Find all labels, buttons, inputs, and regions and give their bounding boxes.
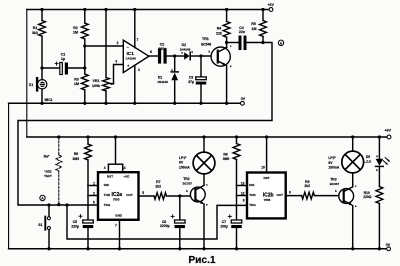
capacitor C6 2200u <box>179 196 181 220</box>
svg-text:b: b <box>208 50 210 54</box>
svg-text:TRG: TRG <box>104 203 111 207</box>
svg-text:2: 2 <box>117 41 119 45</box>
wire IC2a GND to 0V <box>119 220 121 249</box>
svg-text:R4: R4 <box>217 27 222 31</box>
pin 7 wire to +6V <box>134 10 136 48</box>
timer IC2a 7556 <box>98 172 139 220</box>
node A marker bottom <box>40 195 45 200</box>
svg-text:L.E.D: L.E.D <box>364 160 373 164</box>
wire DIS stub IC2b <box>237 185 248 187</box>
svg-text:b: b <box>186 189 188 193</box>
svg-text:b: b <box>335 189 337 193</box>
svg-text:1M: 1M <box>73 31 78 35</box>
svg-text:10: 10 <box>261 166 265 170</box>
op-amp IC1 CA3140 <box>123 40 149 72</box>
svg-text:2: 2 <box>93 192 95 196</box>
svg-text:k: k <box>192 50 194 54</box>
wire TR1 collector <box>226 43 228 48</box>
svg-text:+6V: +6V <box>267 3 274 7</box>
terminal 0V top <box>241 101 245 105</box>
node R7/C6 <box>178 194 181 197</box>
transistor TR3 BC337 <box>339 189 354 204</box>
wire +6V top rail <box>27 9 269 11</box>
svg-text:TR1: TR1 <box>202 37 209 41</box>
wire 0V bottom rail <box>9 248 387 250</box>
wire THR stub IC2a <box>88 195 98 197</box>
wire C1 right to R2/R3 node <box>68 67 85 69</box>
wire left 0V drop <box>8 103 10 249</box>
wire C2 to D1 node <box>167 55 175 57</box>
svg-text:c: c <box>230 44 232 48</box>
svg-text:1N4148: 1N4148 <box>157 80 168 84</box>
svg-text:13: 13 <box>241 182 245 186</box>
svg-text:C2: C2 <box>160 42 165 46</box>
resistor R6 3M9 <box>86 135 89 138</box>
wire +6V bottom rail <box>27 136 387 138</box>
wire mic top <box>41 68 43 80</box>
svg-text:100k: 100k <box>92 84 100 88</box>
wire TR3 collector <box>352 174 354 187</box>
svg-text:S1: S1 <box>38 223 42 227</box>
svg-text:100mA: 100mA <box>179 165 190 169</box>
node D1 top <box>173 54 176 57</box>
svg-text:8: 8 <box>243 199 245 203</box>
svg-text:e: e <box>206 203 208 207</box>
lamp LP1 6V 100mA <box>202 135 205 138</box>
wire to TR1 base <box>201 55 218 57</box>
svg-text:BC337: BC337 <box>183 182 193 186</box>
capacitor C1 1u electrolytic <box>42 67 60 69</box>
svg-text:VR1: VR1 <box>93 79 100 83</box>
wire IC2b output <box>286 195 302 197</box>
capacitor C3 47u <box>200 56 202 77</box>
svg-text:22n: 22n <box>239 30 245 34</box>
svg-text:6V: 6V <box>328 161 333 165</box>
resistor R8 3M9 <box>235 135 238 138</box>
svg-text:6: 6 <box>150 50 152 54</box>
svg-text:C6: C6 <box>162 220 166 224</box>
capacitor C4 22n <box>239 37 242 49</box>
svg-text:D2: D2 <box>182 43 186 47</box>
svg-text:c: c <box>355 184 357 188</box>
svg-text:a: a <box>376 154 378 158</box>
svg-text:4: 4 <box>104 166 106 170</box>
node R2/R3 tap to IC1 pin2 <box>83 44 86 47</box>
wire DIS stub IC2a <box>88 185 98 187</box>
wire R6 to DIS/THR and C5 <box>87 186 89 221</box>
LED D5 <box>378 135 381 138</box>
terminal +6V bottom <box>387 135 391 139</box>
svg-text:7555: 7555 <box>264 198 271 202</box>
wire TR3 emitter to 0V <box>352 206 354 249</box>
resistor R5 1M <box>262 10 264 21</box>
svg-text:BC548: BC548 <box>201 42 211 46</box>
wire R7 to TR2 base <box>167 195 196 197</box>
svg-text:c: c <box>206 183 208 187</box>
svg-text:C1: C1 <box>61 53 66 57</box>
svg-text:DIS: DIS <box>104 183 109 187</box>
svg-text:C7: C7 <box>222 220 226 224</box>
svg-text:100µ: 100µ <box>220 224 228 228</box>
svg-text:GND: GND <box>115 213 123 217</box>
microphone X1 MIC1 <box>36 78 38 90</box>
LED emission arrows <box>383 161 387 165</box>
capacitor C5 220u <box>83 220 94 223</box>
wire TR2 emitter to 0V <box>203 204 205 249</box>
svg-text:R2: R2 <box>73 26 78 30</box>
terminal 0V bottom <box>387 247 391 251</box>
wire collector node to C4 <box>227 42 240 44</box>
svg-text:OUT: OUT <box>126 193 133 197</box>
svg-text:D5: D5 <box>366 155 370 159</box>
potentiometer VR1 100k <box>105 10 107 78</box>
svg-text:1µ: 1µ <box>61 57 65 61</box>
svg-text:9: 9 <box>289 190 291 194</box>
capacitor C7 100u <box>231 220 242 223</box>
resistor R1 <box>41 10 43 21</box>
wire trigger bus <box>67 205 247 239</box>
diode D2 1N4148 <box>184 52 189 60</box>
svg-text:e: e <box>230 64 232 68</box>
svg-text:R3: R3 <box>74 77 79 81</box>
wire net A down-left to bottom circuit <box>18 43 272 206</box>
svg-text:3k2: 3k2 <box>32 31 38 35</box>
wire D2 to C3 node <box>190 55 201 57</box>
svg-text:2200µ: 2200µ <box>160 224 170 228</box>
resistor Ra optional dashed <box>57 135 60 138</box>
terminal +6V top <box>269 8 273 12</box>
svg-text:MIC1: MIC1 <box>44 98 52 102</box>
node C1 to divider <box>83 66 86 69</box>
svg-text:R6: R6 <box>74 152 78 156</box>
svg-text:7: 7 <box>136 38 138 42</box>
wire C4 to R5 node <box>246 42 264 44</box>
svg-text:D1: D1 <box>158 75 162 79</box>
svg-text:2k2: 2k2 <box>304 184 310 188</box>
svg-text:TEXT: TEXT <box>44 174 52 178</box>
svg-text:k: k <box>376 168 378 172</box>
wire IC2a reset/+ve to rail <box>107 164 109 172</box>
svg-text:e: e <box>355 204 357 208</box>
svg-text:7: 7 <box>115 223 117 227</box>
wire THR stub IC2b <box>237 195 248 197</box>
svg-text:LP1*: LP1* <box>179 156 187 160</box>
svg-text:2k2: 2k2 <box>155 184 161 188</box>
svg-text:CA3140: CA3140 <box>126 56 137 60</box>
lamp LP2 6V 100mA <box>351 135 354 138</box>
pin 4 wire to 0V <box>134 65 136 103</box>
svg-text:+VE: +VE <box>123 175 129 179</box>
svg-text:RST: RST <box>264 176 270 180</box>
wire to D2 <box>175 55 184 57</box>
svg-text:100mA: 100mA <box>328 166 339 170</box>
switch S1 push-to-make <box>47 203 50 206</box>
svg-text:*SEE: *SEE <box>44 169 51 173</box>
svg-text:THR: THR <box>104 193 111 197</box>
resistor R3 <box>81 74 88 90</box>
svg-text:6: 6 <box>93 200 95 204</box>
node TR1 collector / R4 <box>225 41 228 44</box>
svg-text:0V: 0V <box>241 97 246 101</box>
svg-text:OUT: OUT <box>276 193 283 197</box>
node mic/C1 junction <box>40 66 43 69</box>
svg-text:TRG: TRG <box>249 203 256 207</box>
svg-text:TR3: TR3 <box>330 178 337 182</box>
pin 6 output wire <box>149 55 158 57</box>
transistor TR1 BC548 <box>211 47 230 66</box>
wire 0V top rail <box>9 102 241 104</box>
svg-text:Ra*: Ra* <box>44 155 50 159</box>
resistor R4 22k <box>226 10 228 22</box>
svg-text:1M: 1M <box>74 82 79 86</box>
resistor R7 2k2 <box>154 193 167 200</box>
svg-text:12: 12 <box>241 192 245 196</box>
svg-text:1M: 1M <box>252 27 257 31</box>
diode D1 1N4148 <box>174 56 176 72</box>
svg-text:3: 3 <box>115 60 117 64</box>
svg-text:220n: 220n <box>158 47 166 51</box>
wire IC2a output <box>139 195 155 197</box>
node net A to IC2b trigger branch <box>65 203 68 206</box>
wire left +6V drop to bottom rail <box>26 10 28 138</box>
resistor R9 2k2 <box>302 192 315 199</box>
svg-text:R5: R5 <box>251 22 256 26</box>
svg-text:DIS: DIS <box>249 183 254 187</box>
node A marker top <box>278 40 283 45</box>
svg-text:47µ: 47µ <box>188 80 194 84</box>
svg-text:C3: C3 <box>189 76 193 80</box>
svg-text:4: 4 <box>138 68 140 72</box>
svg-text:220Ω: 220Ω <box>363 195 372 199</box>
node R1 top <box>40 8 43 11</box>
svg-text:5: 5 <box>142 191 144 195</box>
svg-text:7555: 7555 <box>113 198 120 202</box>
resistor R10 220R <box>378 167 380 187</box>
resistor R2 <box>84 10 86 24</box>
svg-text:X1: X1 <box>29 83 33 87</box>
svg-text:220µ: 220µ <box>71 225 79 229</box>
wire mic bottom to 0V <box>41 89 43 103</box>
svg-text:3M9: 3M9 <box>72 157 79 161</box>
capacitor C2 220n <box>158 50 161 62</box>
svg-text:THR: THR <box>249 193 256 197</box>
node A junction top <box>261 41 264 44</box>
transistor TR2 BC337 <box>190 187 205 202</box>
svg-text:RST: RST <box>107 175 113 179</box>
svg-text:C5: C5 <box>73 220 77 224</box>
svg-text:+6V: +6V <box>384 129 391 133</box>
svg-text:3M9: 3M9 <box>223 157 230 161</box>
svg-text:LP2*: LP2* <box>328 156 336 160</box>
svg-text:22k: 22k <box>216 31 222 35</box>
svg-text:6V: 6V <box>179 161 184 165</box>
node C3 top <box>199 54 202 57</box>
wire VR1 wiper to IC1 pin3 <box>111 83 114 85</box>
svg-text:1: 1 <box>93 182 95 186</box>
svg-text:BC337: BC337 <box>330 182 340 186</box>
svg-text:R8: R8 <box>223 153 227 157</box>
wire pin2 <box>85 45 124 47</box>
svg-text:0V: 0V <box>386 243 391 247</box>
timer IC2b 7556 <box>247 173 286 219</box>
wire IC2b reset to rail <box>266 137 268 173</box>
svg-text:R1: R1 <box>33 26 38 30</box>
wire TR1 emitter to 0V <box>226 66 228 104</box>
svg-text:Рис.1: Рис.1 <box>188 255 216 266</box>
wire R9 to TR3 base <box>314 195 343 197</box>
svg-text:TR2: TR2 <box>183 177 190 181</box>
wire R8 chain to C7 <box>236 186 238 221</box>
wire divider mid <box>84 46 86 74</box>
